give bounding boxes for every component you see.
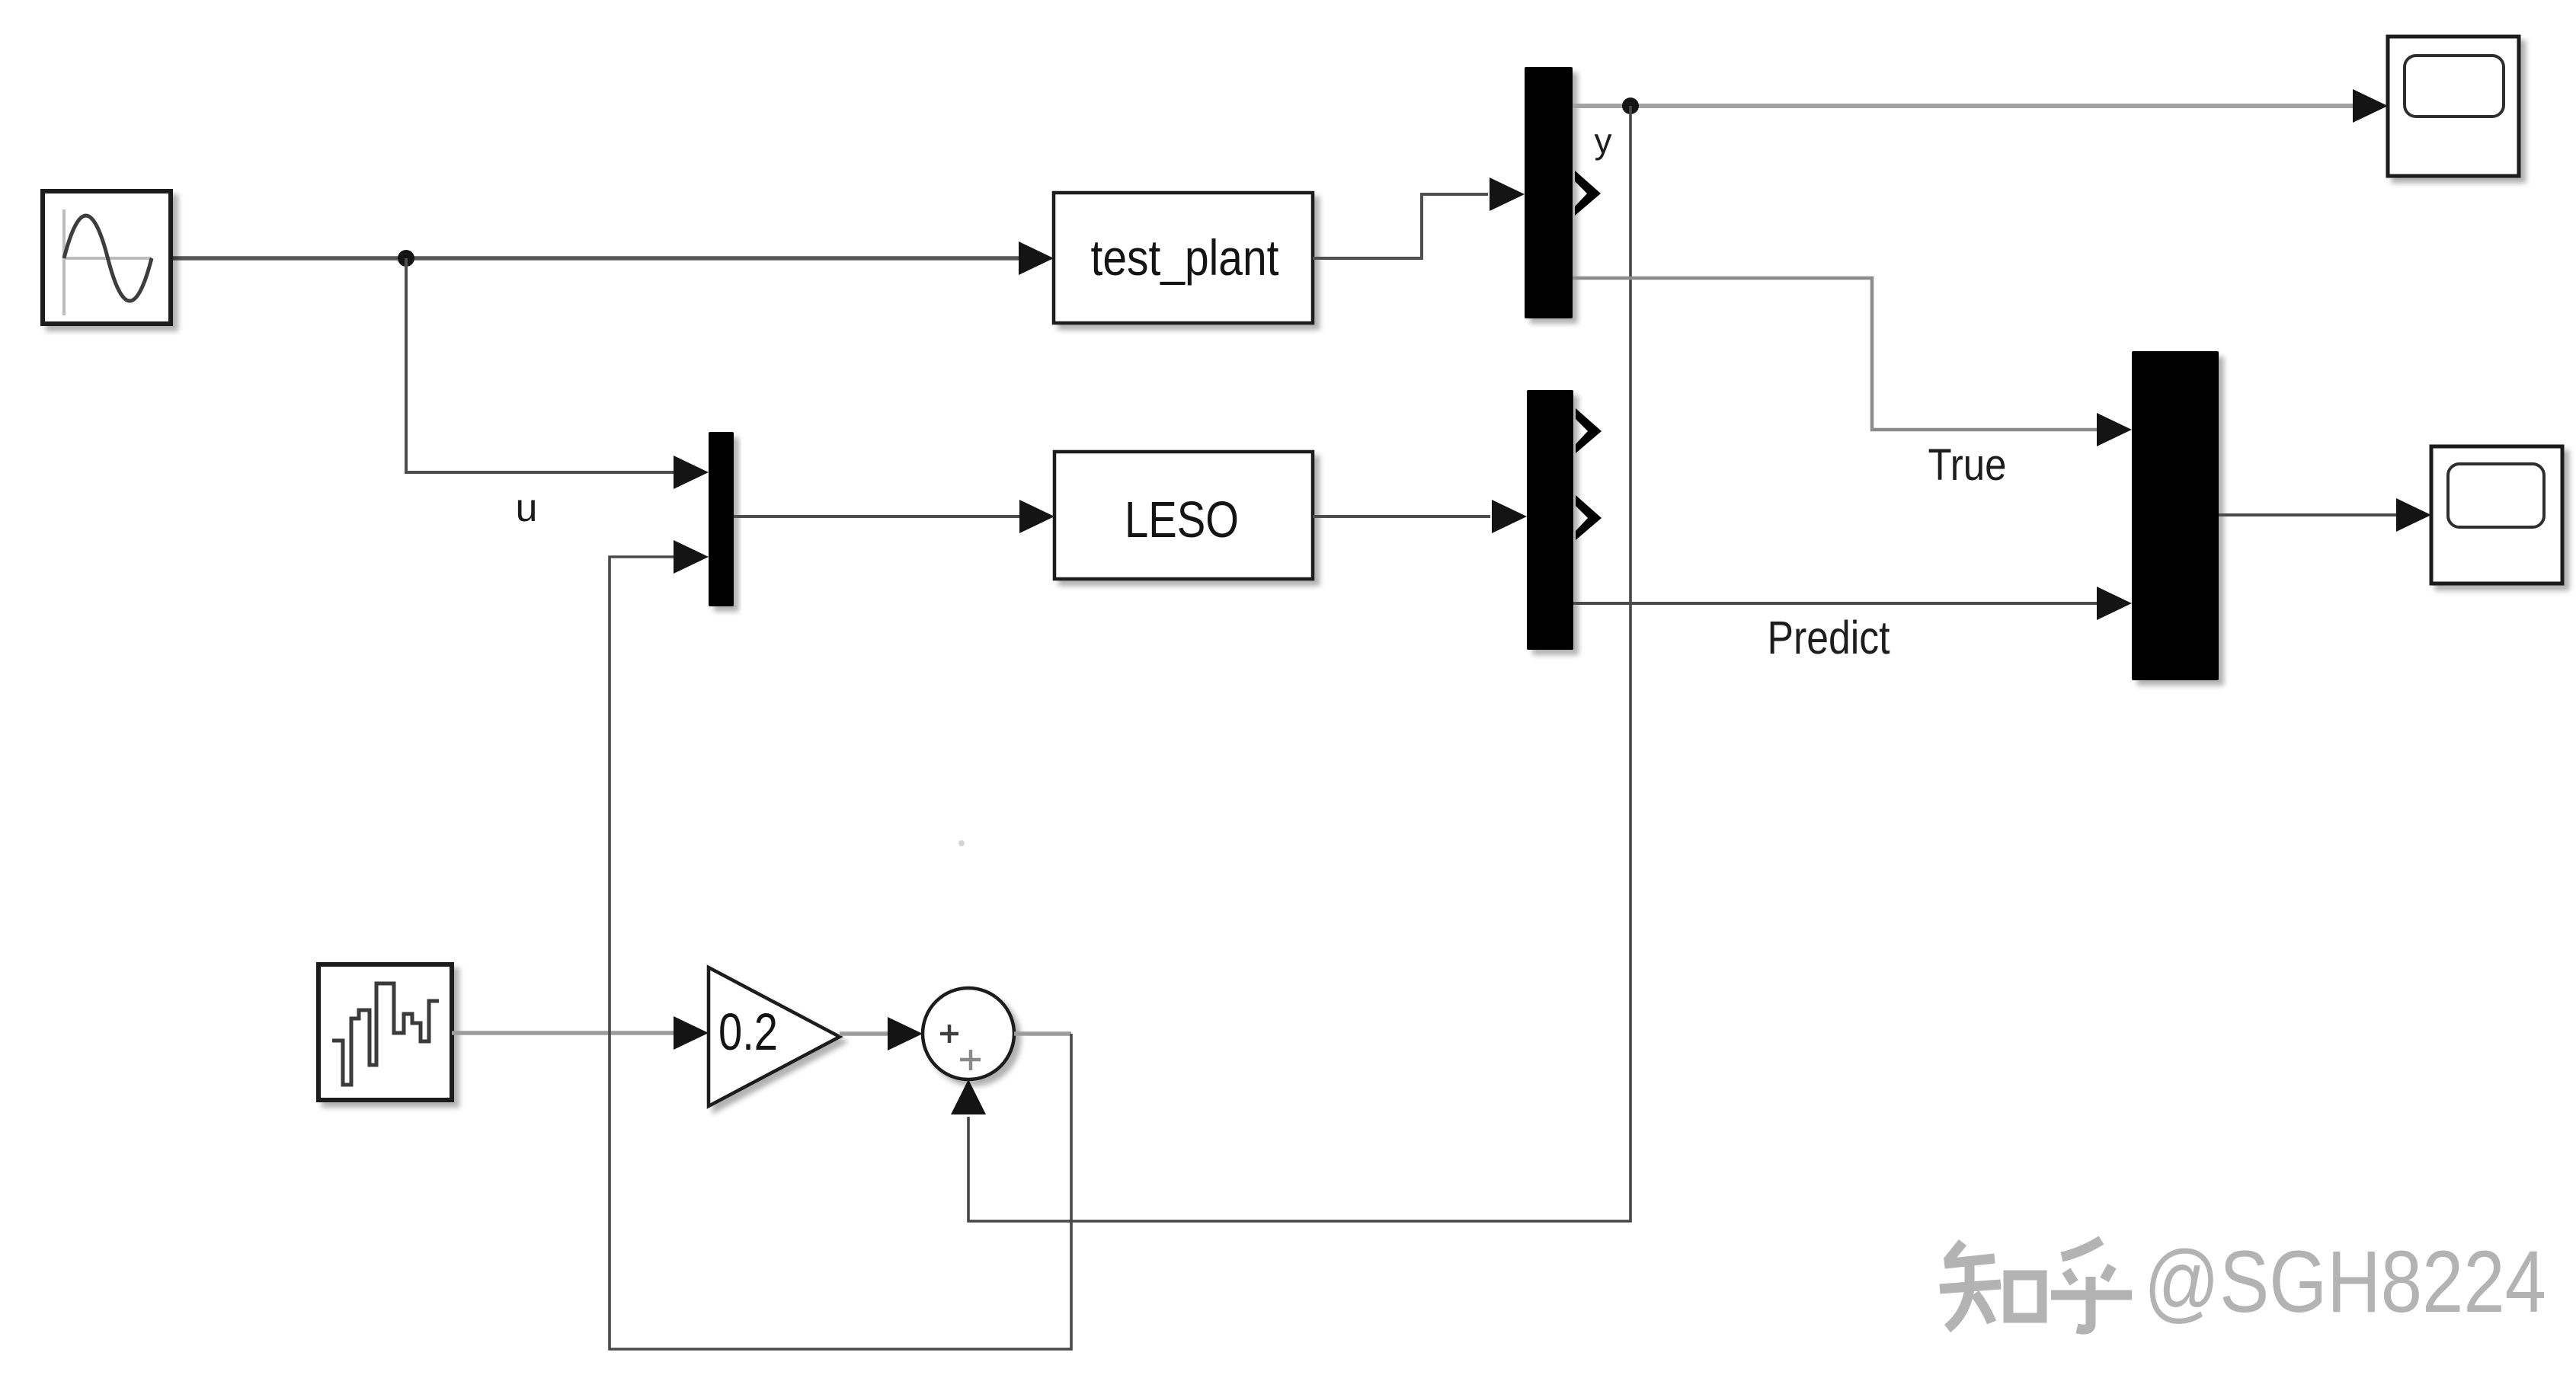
- demux D2: [1527, 390, 1573, 650]
- node junction on u wire: [398, 250, 414, 267]
- svg-text:True: True: [1928, 440, 2007, 490]
- arrow into sum bottom input: [951, 1079, 986, 1114]
- sum block: [923, 988, 1014, 1079]
- wire mux M1 out to LESO: [734, 500, 1054, 533]
- stray mark: [958, 840, 965, 846]
- demux D2 unconnected port 1 chevron: [1576, 408, 1602, 453]
- svg-text:Predict: Predict: [1768, 612, 1890, 664]
- sum plus sign input 1: [940, 1025, 958, 1043]
- wire test_plant to demux D1 input: [1313, 177, 1525, 258]
- svg-text:@SGH8224: @SGH8224: [2144, 1233, 2546, 1331]
- wire demux D2 out3 to big mux input Predict: [1573, 587, 2132, 620]
- gain block 0.2: [709, 967, 840, 1106]
- demux D1: [1525, 67, 1573, 318]
- node junction on y wire: [1622, 98, 1639, 114]
- scope block Scope2: [2431, 446, 2562, 584]
- source block Band-Limited White Noise: [318, 964, 452, 1100]
- svg-text:LESO: LESO: [1125, 491, 1239, 548]
- wire noise to gain: [452, 1016, 709, 1050]
- svg-text:0.2: 0.2: [718, 1002, 778, 1061]
- wire sine to test_plant: [171, 241, 1054, 275]
- wire sum output feedback loop to mux M1 input 2: [610, 540, 1071, 1349]
- watermark zhihu logo 知: [1940, 1242, 2042, 1329]
- wire gain to sum: [840, 1017, 923, 1050]
- wire LESO to demux D2: [1313, 500, 1527, 533]
- wire junction down to mux M1 input 1: [406, 258, 709, 489]
- scope block Scope1: [2388, 37, 2519, 176]
- subsystem block test_plant: [1054, 193, 1313, 323]
- svg-text:test_plant: test_plant: [1091, 229, 1279, 286]
- mux M1: [709, 432, 734, 606]
- sum plus sign input 2: [960, 1050, 981, 1070]
- svg-text:u: u: [516, 486, 538, 530]
- wire big mux to Scope2: [2219, 498, 2431, 532]
- svg-text:y: y: [1595, 121, 1612, 161]
- watermark zhihu logo 乎: [2051, 1240, 2132, 1329]
- demux D1 unconnected port 2 chevron: [1575, 171, 1601, 216]
- wire y junction down to sum feedback: [968, 106, 1630, 1221]
- wire demux D1 out3 to big mux input True: [1573, 278, 2132, 446]
- wire demux D1 out1 to Scope1: [1573, 89, 2388, 123]
- subsystem block LESO: [1054, 452, 1313, 579]
- source block Sine Wave: [43, 191, 171, 324]
- big mux M2: [2132, 351, 2219, 680]
- demux D2 unconnected port 2 chevron: [1576, 495, 1602, 540]
